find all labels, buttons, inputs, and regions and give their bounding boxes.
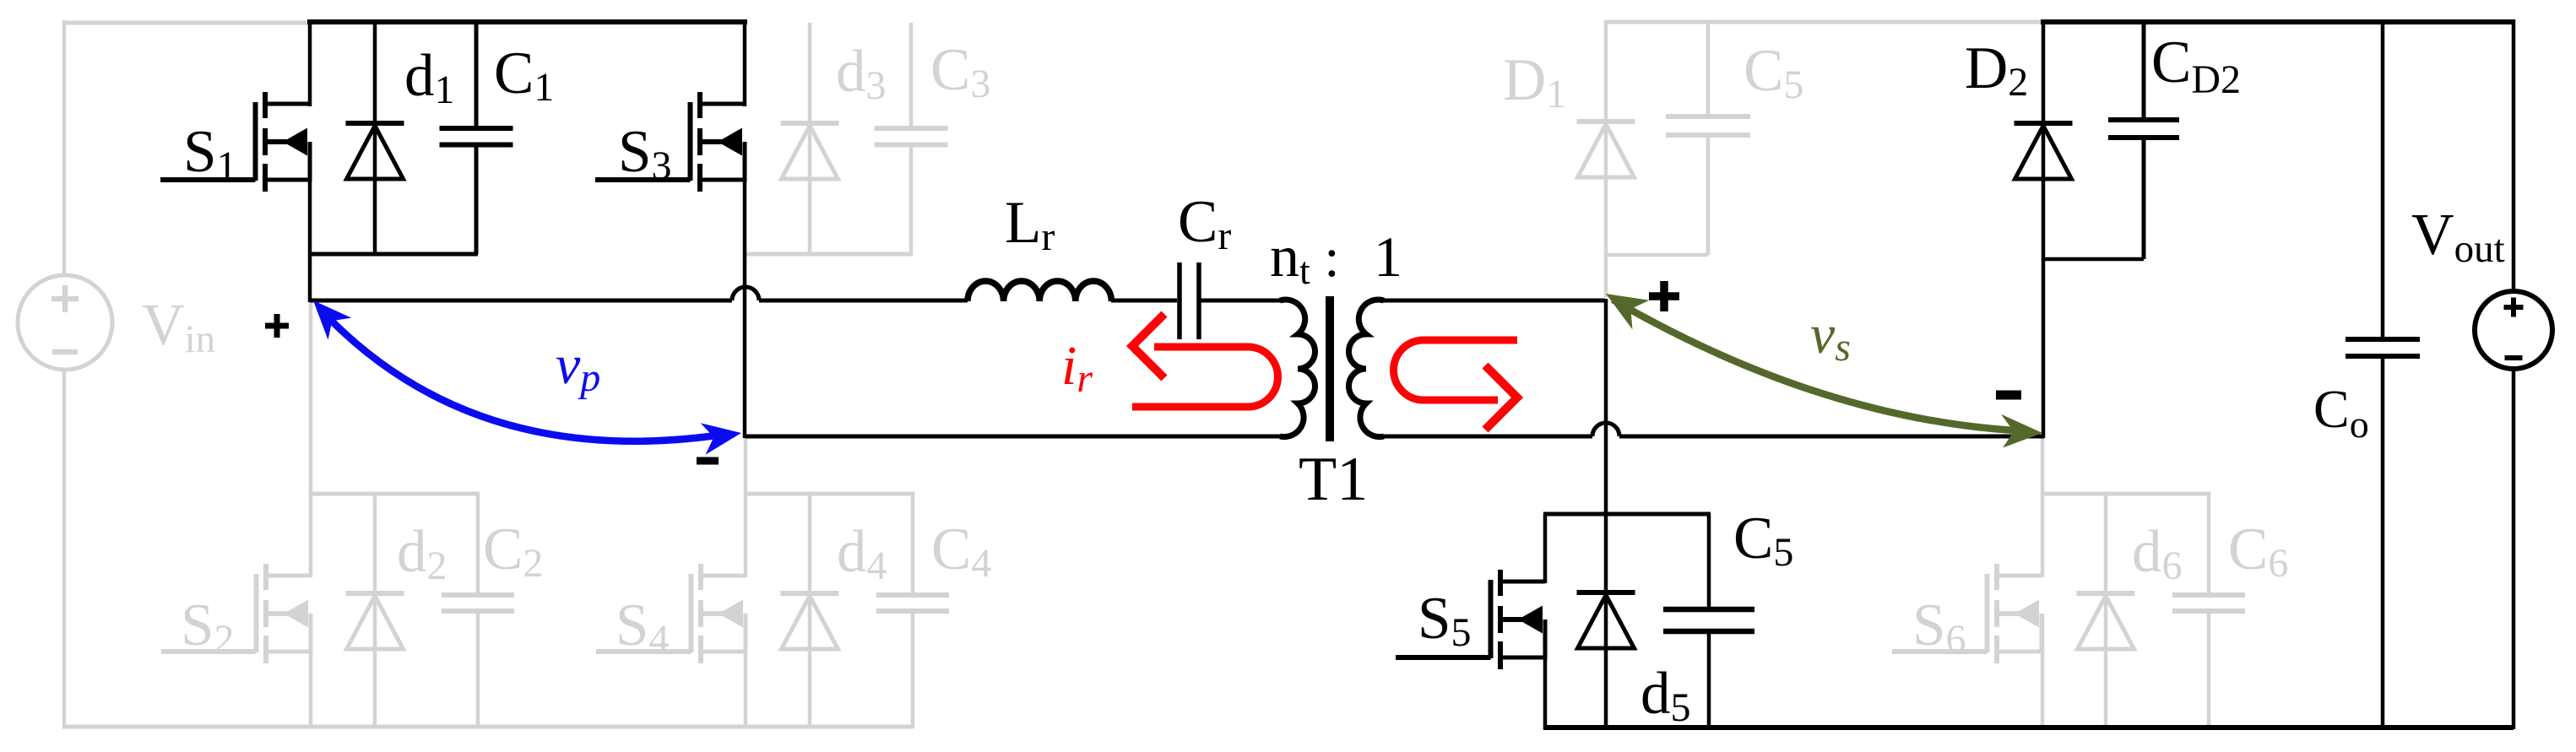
capacitor C5sn xyxy=(1666,116,1750,135)
wire d3 branch xyxy=(808,23,812,254)
capacitor C4 xyxy=(876,595,949,611)
transformer T1 primary winding xyxy=(1280,300,1315,437)
wire top rail primary bridge xyxy=(307,19,747,24)
wire Co branch top xyxy=(2381,19,2385,339)
wire S4 group top bar xyxy=(744,492,914,496)
vs minus sign xyxy=(1996,391,2021,400)
MOSFET S1 xyxy=(160,92,312,192)
vs plus sign xyxy=(1649,281,1679,311)
svg-text:T1: T1 xyxy=(1299,445,1368,514)
capacitor C6 xyxy=(2172,595,2245,611)
annotation circulating arrow secondary xyxy=(1394,340,1518,400)
Vin plus sign xyxy=(52,285,79,312)
wire S3 group bottom bar (gray) xyxy=(745,252,913,257)
wire Vin top lead xyxy=(62,20,67,276)
wire vs+ node down to S5/d5 branch xyxy=(1604,299,1608,728)
MOSFET S5 xyxy=(1396,570,1548,669)
wire C3 branch xyxy=(909,23,914,128)
capacitor CD2 xyxy=(2108,120,2179,138)
wire Vout top lead xyxy=(2512,19,2516,293)
diode d1 xyxy=(346,123,404,179)
Vout minus sign xyxy=(2505,355,2523,360)
wire Co branch bottom xyxy=(2381,356,2385,729)
wire vp- node to transformer primary bottom xyxy=(746,435,1284,439)
wire d2 branch xyxy=(373,494,377,728)
capacitor Co xyxy=(2346,339,2420,356)
voltage source Vin xyxy=(18,275,112,370)
wire transformer secondary top to vs+ node xyxy=(1380,299,1605,303)
capacitor C1 xyxy=(440,128,513,145)
capacitor C3 xyxy=(875,128,948,145)
wire C5 gray branch xyxy=(1706,22,1711,116)
wire S1 drain leg xyxy=(308,19,312,106)
voltage source Vout xyxy=(2475,291,2552,369)
wire gray bottom rail xyxy=(62,725,913,729)
wire C4 branch xyxy=(911,494,915,595)
inductor Lr xyxy=(968,281,1111,301)
annotation vs arrow xyxy=(1613,300,2030,431)
diode D2 xyxy=(2015,123,2073,179)
wire C5 branch (secondary snubber) xyxy=(1707,514,1711,609)
wire S5 group top bar xyxy=(1543,512,1711,517)
wire Cr to transformer primary xyxy=(1201,299,1284,303)
wire C6 branch xyxy=(2207,494,2211,595)
wire D2/CD2 group bottom bar xyxy=(2043,257,2144,262)
wire S2 leg from vp+ node down xyxy=(309,300,313,495)
wire S6 source leg xyxy=(2041,614,2045,728)
Vin minus sign xyxy=(52,349,78,355)
wire S3 drain leg xyxy=(743,19,747,106)
wire D1/C5 group bottom bar xyxy=(1606,253,1708,257)
wire Vout bottom lead xyxy=(2512,369,2516,729)
MOSFET S6 xyxy=(1892,564,2044,663)
capacitor Cr xyxy=(1177,262,1182,339)
diode D1 xyxy=(1577,122,1635,177)
wire S2 drain leg xyxy=(309,494,313,577)
diode d3 xyxy=(781,123,839,179)
wire S1 source leg down to vp+ node xyxy=(308,142,312,302)
wire D1 leg xyxy=(1604,20,1608,297)
wire d4 branch xyxy=(808,494,812,728)
wire top rail output side xyxy=(2041,19,2514,24)
wire CD2 branch xyxy=(2142,20,2146,120)
capacitor C2 xyxy=(442,595,514,611)
wire S2 source leg xyxy=(309,614,313,728)
wire hop over rectifier leg xyxy=(1592,423,1619,436)
vp minus sign xyxy=(697,457,719,465)
wire S2 group top bar xyxy=(309,492,480,496)
wire bottom rail output xyxy=(1543,725,2514,730)
wire d1 branch xyxy=(373,20,377,254)
wire D2 leg xyxy=(2042,19,2046,438)
diode d4 xyxy=(781,593,839,649)
wire S6 leg from vs- node down xyxy=(2041,438,2045,495)
wire Lr to Cr xyxy=(1111,299,1177,303)
wire S4 drain leg xyxy=(744,494,748,577)
wire transformer secondary bottom to vs- node xyxy=(1380,435,1592,439)
transformer T1 core xyxy=(1326,296,1334,441)
wire S5 source leg xyxy=(1543,619,1548,729)
wire S5 drain leg xyxy=(1543,514,1548,583)
wire S6 group top bar xyxy=(2041,492,2210,496)
wire S4 leg from vp- node down xyxy=(744,438,748,495)
wire C1 branch xyxy=(475,20,479,128)
transformer T1 secondary winding xyxy=(1349,300,1385,437)
wire gray top rail secondary xyxy=(1606,20,2042,24)
wire S6 drain leg xyxy=(2041,494,2045,577)
capacitor C5 xyxy=(1663,609,1754,631)
MOSFET S4 xyxy=(596,564,748,663)
wire hop over S3 leg xyxy=(732,287,759,300)
wire vp+ node to Lr xyxy=(310,299,732,303)
MOSFET S2 xyxy=(161,564,313,663)
Vout plus sign xyxy=(2504,298,2524,317)
wire S3 source leg down through hop to vp- node xyxy=(743,142,747,438)
vp plus sign xyxy=(265,314,289,338)
wire C2 branch xyxy=(476,494,480,595)
annotation ir circulating arrow primary xyxy=(1132,347,1277,407)
diode d6 xyxy=(2077,593,2135,649)
wire S1 group bottom bar xyxy=(308,252,478,257)
MOSFET S3 xyxy=(595,92,747,192)
svg-text:nt :1: nt :1 xyxy=(1270,225,1402,292)
diode d2 xyxy=(346,593,404,649)
annotation vp arrow xyxy=(319,308,728,441)
wire S4 source leg xyxy=(744,614,748,728)
wire d6 branch xyxy=(2104,494,2108,728)
diode d5 xyxy=(1577,592,1635,648)
wire Vin bottom lead xyxy=(62,369,67,728)
